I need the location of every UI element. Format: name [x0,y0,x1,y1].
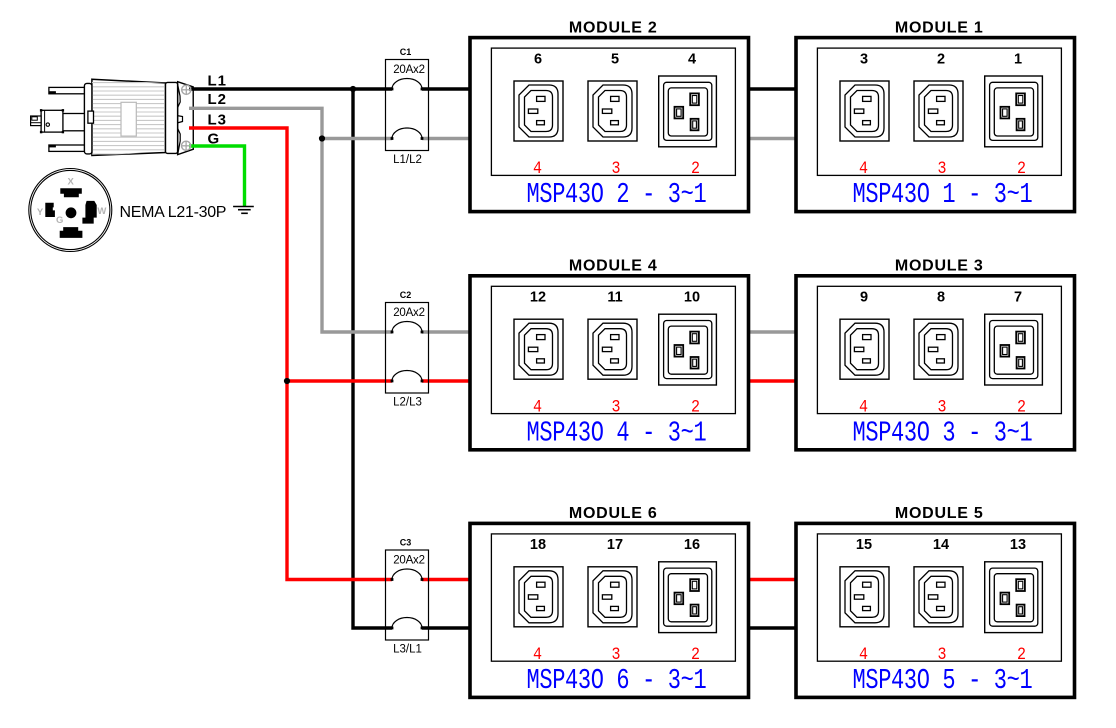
plug neck band [166,82,178,153]
outlet 6 (IEC C13 receptacle) [514,81,563,141]
svg-text:16: 16 [684,537,700,553]
svg-text:8: 8 [937,290,945,306]
svg-text:L1: L1 [208,73,227,90]
wire L1 (black) C1 to MODULE 2 [422,87,470,90]
face slot (bottom) [60,227,83,238]
wire L2 (gray) C2 to MODULE 4 [422,330,470,333]
svg-text:13: 13 [1010,537,1026,553]
svg-text:2: 2 [1017,396,1026,416]
outlet 9 (IEC C13 receptacle) [840,319,889,379]
module MODULE 2 inner panel [491,48,735,175]
outlet 18 (IEC C13 receptacle) [514,567,563,627]
face slot Y (left) [45,203,55,217]
wire L3 (red) MODULE 6 to MODULE 5 [748,578,797,581]
face slot W (right) [82,201,96,224]
outlet 10 (NEMA receptacle) [659,314,717,385]
svg-text:Y: Y [37,207,44,218]
wire L2 (gray) MODULE 2 to MODULE 1 [748,137,797,140]
svg-text:17: 17 [607,537,623,553]
svg-text:3: 3 [611,396,620,416]
outlet 7 (NEMA receptacle) [985,314,1043,385]
breaker C3 box [386,550,429,640]
svg-text:L2: L2 [208,91,227,108]
outlet 3 (IEC C13 receptacle) [840,81,889,141]
connector face view (NEMA L21-30P) [29,169,112,252]
svg-text:MODULE 1: MODULE 1 [895,19,984,36]
svg-text:W: W [97,206,106,217]
svg-text:MSP43O 6 - 3~1: MSP43O 6 - 3~1 [527,664,707,697]
svg-text:9: 9 [860,290,868,306]
outlet 15 (IEC C13 receptacle) [840,567,889,627]
svg-text:2: 2 [937,51,945,67]
module MODULE 6 outer box [470,523,749,697]
wire L1 (black) MODULE 2 to MODULE 1 [748,87,797,90]
svg-text:5: 5 [611,51,619,67]
breaker C2 pole 1 arc [392,322,422,333]
svg-text:4: 4 [533,396,542,416]
wire L3 (red) MODULE 4 to MODULE 3 [748,379,797,382]
svg-text:MSP43O 3 - 3~1: MSP43O 3 - 3~1 [853,417,1033,450]
wire L3 (red) branch to breaker C2 [287,379,392,382]
plug blade (bottom prong) [49,145,92,151]
junction dot L3 branch [284,378,290,384]
outlet 8 (IEC C13 receptacle) [914,319,963,379]
svg-text:MSP43O 5 - 3~1: MSP43O 5 - 3~1 [853,664,1033,697]
breaker C2 pole 2 arc [392,371,422,382]
outlet 11 (IEC C13 receptacle) [588,319,637,379]
svg-text:4: 4 [859,396,868,416]
wire L2 (gray) C1 to MODULE 2 [422,137,470,140]
wire L2 (gray) plug down to C2 level [189,108,392,332]
svg-text:L1/L2: L1/L2 [393,154,422,166]
breaker C1 box [386,60,429,151]
svg-text:MODULE 2: MODULE 2 [569,19,658,36]
svg-text:G: G [56,215,63,226]
svg-text:10: 10 [684,290,700,306]
breaker C3 pole 2 arc [392,618,422,629]
svg-text:3: 3 [937,396,946,416]
svg-text:X: X [68,177,75,188]
wire L2 (gray) branch to breaker C1 [322,137,392,140]
wire L3 (red) C3 to MODULE 6 [422,578,470,581]
svg-text:2: 2 [1017,644,1026,664]
svg-text:3: 3 [611,644,620,664]
plug ground prong assembly [63,114,92,131]
outlet 14 (IEC C13 receptacle) [914,567,963,627]
face slot X (top) [60,188,82,197]
svg-text:1: 1 [1014,51,1022,67]
module MODULE 1 outer box [796,38,1075,212]
svg-text:C3: C3 [400,538,412,548]
svg-text:3: 3 [937,644,946,664]
breaker C3 pole 1 arc [392,569,422,580]
module MODULE 1 inner panel [817,48,1061,175]
svg-text:2: 2 [691,158,700,178]
module MODULE 5 outer box [796,523,1075,697]
svg-text:20Ax2: 20Ax2 [393,555,425,567]
breaker C1 pole 2 arc [392,128,422,139]
svg-text:18: 18 [530,537,546,553]
ground symbol [233,207,254,214]
svg-text:NEMA L21-30P: NEMA L21-30P [120,204,227,221]
svg-text:7: 7 [1014,290,1022,306]
svg-text:MSP43O 1 - 3~1: MSP43O 1 - 3~1 [853,178,1033,211]
outlet 2 (IEC C13 receptacle) [914,81,963,141]
wire L3 (red) C2 to MODULE 4 [422,379,470,382]
module MODULE 4 inner panel [491,286,735,413]
wire L2 (gray) MODULE 4 to MODULE 3 [748,330,797,333]
svg-text:L3: L3 [208,111,227,128]
svg-text:C2: C2 [400,290,412,300]
module MODULE 3 outer box [796,276,1075,450]
outlet 1 (NEMA receptacle) [985,76,1043,147]
svg-text:4: 4 [859,158,868,178]
wire L1 (black) plug to breaker C1 [189,87,392,90]
plug screw (bottom) [182,141,191,150]
wire L1 (black) feeder vertical [353,89,392,628]
svg-text:MODULE 5: MODULE 5 [895,505,984,522]
svg-text:12: 12 [530,290,546,306]
svg-text:L3/L1: L3/L1 [393,644,422,656]
wire L1 (black) MODULE 6 to MODULE 5 [748,626,797,629]
face center ground pin [66,207,77,218]
svg-text:4: 4 [533,644,542,664]
svg-text:2: 2 [1017,158,1026,178]
outlet 17 (IEC C13 receptacle) [588,567,637,627]
plug cord grip end [178,82,194,155]
svg-text:G: G [208,130,221,147]
svg-text:MODULE 3: MODULE 3 [895,258,984,275]
wire G (green) plug to ground [189,146,245,207]
plug collar flange [84,83,92,153]
svg-text:2: 2 [691,644,700,664]
module MODULE 5 inner panel [817,534,1061,661]
wire L3 (red) plug down to C3 level [189,128,392,580]
svg-text:2: 2 [691,396,700,416]
junction dot L2 branch [319,135,325,141]
svg-text:MSP43O 2 - 3~1: MSP43O 2 - 3~1 [527,178,707,211]
breaker C1 pole 1 arc [392,79,422,90]
outlet 4 (NEMA receptacle) [659,76,717,147]
svg-text:MSP43O 4 - 3~1: MSP43O 4 - 3~1 [527,417,707,450]
svg-text:L2/L3: L2/L3 [393,397,422,409]
module MODULE 3 inner panel [817,286,1061,413]
plug blade (top prong) [49,87,92,93]
svg-text:20Ax2: 20Ax2 [393,307,425,319]
outlet 13 (NEMA receptacle) [985,562,1043,633]
svg-text:MODULE 4: MODULE 4 [569,258,658,275]
svg-text:11: 11 [607,290,622,306]
outlet 16 (NEMA receptacle) [659,562,717,633]
outlet 12 (IEC C13 receptacle) [514,319,563,379]
module MODULE 4 outer box [470,276,749,450]
svg-text:3: 3 [937,158,946,178]
svg-text:4: 4 [533,158,542,178]
plug body label area [121,102,136,136]
plug screw (top) [182,85,191,94]
plug collar notch [88,111,94,123]
outlet 5 (IEC C13 receptacle) [588,81,637,141]
svg-text:20Ax2: 20Ax2 [393,64,425,76]
plug P1 NEMA L21-30P (side view) [31,79,194,155]
wire L1 (black) C3 to MODULE 6 [422,626,470,629]
svg-text:6: 6 [534,51,542,67]
module MODULE 6 inner panel [491,534,735,661]
svg-text:14: 14 [933,537,949,553]
svg-text:4: 4 [688,51,696,67]
junction dot L1 feeder [350,86,356,92]
svg-text:MODULE 6: MODULE 6 [569,505,658,522]
svg-text:4: 4 [859,644,868,664]
breaker C2 box [386,303,429,394]
svg-text:3: 3 [860,51,868,67]
svg-text:C1: C1 [400,47,412,57]
svg-text:15: 15 [856,537,872,553]
svg-text:3: 3 [611,158,620,178]
module MODULE 2 outer box [470,38,749,212]
